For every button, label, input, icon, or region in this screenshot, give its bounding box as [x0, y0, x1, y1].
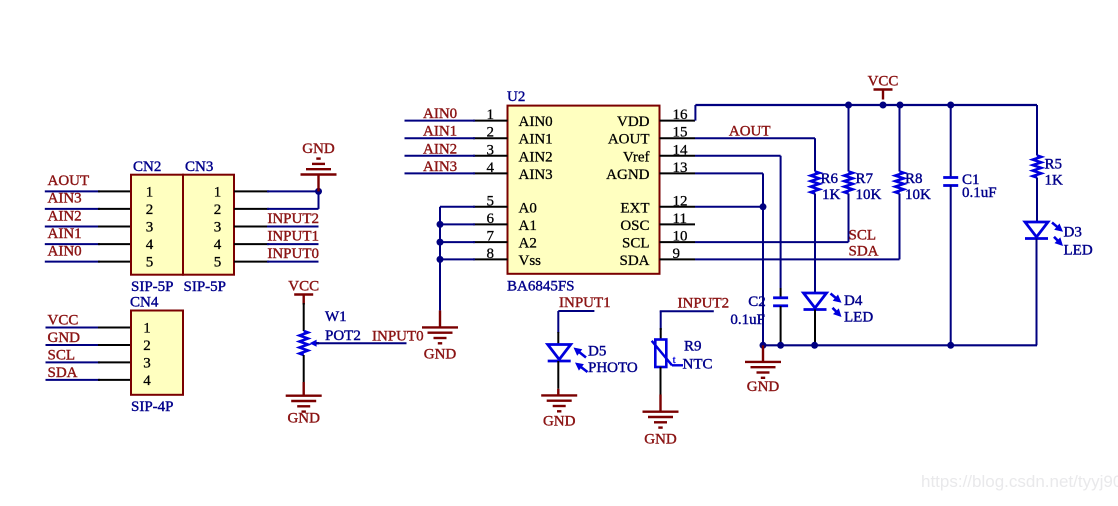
svg-text:15: 15 [673, 125, 688, 141]
svg-text:LED: LED [844, 310, 873, 326]
svg-text:14: 14 [673, 142, 689, 158]
svg-text:SDA: SDA [48, 365, 78, 381]
svg-text:3: 3 [214, 220, 222, 236]
svg-text:A1: A1 [519, 218, 537, 234]
svg-text:AGND: AGND [606, 167, 649, 183]
svg-text:9: 9 [673, 246, 681, 262]
svg-text:CN4: CN4 [130, 295, 159, 311]
svg-text:AIN3: AIN3 [519, 167, 553, 183]
svg-text:A2: A2 [519, 236, 537, 252]
svg-text:0.1uF: 0.1uF [962, 185, 997, 201]
svg-text:1K: 1K [1045, 173, 1064, 189]
svg-text:13: 13 [673, 160, 688, 176]
svg-text:10K: 10K [856, 187, 882, 203]
svg-text:AOUT: AOUT [48, 173, 90, 189]
svg-text:AIN3: AIN3 [48, 191, 82, 207]
svg-text:6: 6 [487, 211, 495, 227]
svg-text:1K: 1K [822, 187, 841, 203]
svg-text:GND: GND [543, 413, 576, 429]
svg-text:GND: GND [747, 379, 780, 395]
svg-text:4: 4 [214, 237, 222, 253]
svg-text:VCC: VCC [48, 313, 79, 329]
svg-text:VDD: VDD [617, 114, 650, 130]
svg-text:8: 8 [487, 246, 495, 262]
svg-text:INPUT1: INPUT1 [267, 229, 319, 245]
svg-text:OSC: OSC [620, 218, 649, 234]
svg-text:10K: 10K [905, 187, 931, 203]
svg-text:SDA: SDA [849, 243, 879, 259]
svg-text:D5: D5 [588, 344, 606, 360]
svg-text:INPUT2: INPUT2 [678, 296, 730, 312]
svg-text:SCL: SCL [849, 228, 877, 244]
svg-text:Vss: Vss [519, 253, 542, 269]
svg-text:AIN2: AIN2 [423, 141, 457, 157]
svg-text:3: 3 [146, 220, 154, 236]
svg-text:2: 2 [143, 338, 151, 354]
svg-text:INPUT1: INPUT1 [559, 295, 611, 311]
svg-text:R9: R9 [684, 339, 702, 355]
svg-text:0.1uF: 0.1uF [730, 312, 765, 328]
svg-text:U2: U2 [507, 89, 525, 105]
svg-text:1: 1 [143, 321, 151, 337]
svg-text:5: 5 [487, 193, 495, 209]
svg-text:Vref: Vref [623, 149, 650, 165]
svg-text:INPUT2: INPUT2 [267, 211, 319, 227]
svg-text:EXT: EXT [620, 200, 649, 216]
svg-text:INPUT0: INPUT0 [267, 246, 319, 262]
svg-text:CN3: CN3 [185, 159, 213, 175]
svg-text:LED: LED [1064, 243, 1093, 259]
svg-text:1: 1 [214, 184, 222, 200]
svg-text:INPUT0: INPUT0 [372, 329, 424, 345]
svg-text:1: 1 [487, 107, 495, 123]
svg-text:GND: GND [424, 346, 457, 362]
svg-text:NTC: NTC [683, 357, 713, 373]
svg-text:SIP-5P: SIP-5P [131, 279, 174, 295]
svg-text:2: 2 [214, 202, 222, 218]
svg-text:AIN3: AIN3 [423, 159, 457, 175]
svg-text:GND: GND [287, 411, 320, 427]
svg-text:3: 3 [143, 355, 151, 371]
svg-text:AIN0: AIN0 [423, 106, 457, 122]
svg-text:R8: R8 [905, 171, 923, 187]
svg-text:A0: A0 [519, 200, 537, 216]
svg-text:2: 2 [146, 202, 154, 218]
svg-text:1: 1 [146, 184, 154, 200]
svg-text:CN2: CN2 [133, 159, 161, 175]
svg-text:11: 11 [673, 211, 687, 227]
svg-text:PHOTO: PHOTO [588, 360, 638, 376]
svg-text:VCC: VCC [288, 279, 319, 295]
svg-text:AIN2: AIN2 [48, 208, 82, 224]
svg-text:2: 2 [487, 125, 495, 141]
svg-text:VCC: VCC [868, 74, 899, 90]
svg-text:GND: GND [644, 432, 677, 448]
svg-text:GND: GND [48, 330, 81, 346]
svg-text:W1: W1 [325, 309, 347, 325]
svg-text:12: 12 [673, 193, 688, 209]
svg-text:https://blog.csdn.net/tyyj90: https://blog.csdn.net/tyyj90 [921, 472, 1118, 491]
svg-text:10: 10 [673, 229, 688, 245]
svg-text:BA6845FS: BA6845FS [507, 279, 575, 295]
svg-text:4: 4 [487, 160, 495, 176]
svg-text:D3: D3 [1064, 225, 1082, 241]
svg-text:POT2: POT2 [325, 328, 361, 344]
svg-text:R7: R7 [856, 171, 874, 187]
svg-text:AIN2: AIN2 [519, 149, 553, 165]
svg-text:3: 3 [487, 142, 495, 158]
svg-text:SDA: SDA [619, 253, 649, 269]
svg-text:SCL: SCL [48, 347, 76, 363]
svg-text:16: 16 [673, 107, 689, 123]
svg-text:GND: GND [302, 141, 335, 157]
svg-text:t: t [673, 355, 676, 366]
svg-text:7: 7 [487, 229, 495, 245]
svg-text:D4: D4 [844, 293, 863, 309]
svg-text:R5: R5 [1045, 157, 1063, 173]
svg-text:AIN0: AIN0 [519, 114, 553, 130]
svg-text:AOUT: AOUT [608, 132, 650, 148]
svg-text:SIP-4P: SIP-4P [131, 399, 174, 415]
svg-text:AIN1: AIN1 [519, 132, 553, 148]
svg-text:R6: R6 [821, 171, 839, 187]
svg-text:SCL: SCL [622, 236, 650, 252]
svg-text:AIN0: AIN0 [48, 243, 82, 259]
svg-text:SIP-5P: SIP-5P [184, 279, 227, 295]
svg-text:AOUT: AOUT [729, 124, 771, 140]
svg-text:AIN1: AIN1 [48, 226, 82, 242]
svg-text:4: 4 [146, 237, 154, 253]
svg-text:5: 5 [214, 255, 222, 271]
svg-text:5: 5 [146, 255, 154, 271]
svg-text:AIN1: AIN1 [423, 124, 457, 140]
svg-text:4: 4 [143, 373, 151, 389]
